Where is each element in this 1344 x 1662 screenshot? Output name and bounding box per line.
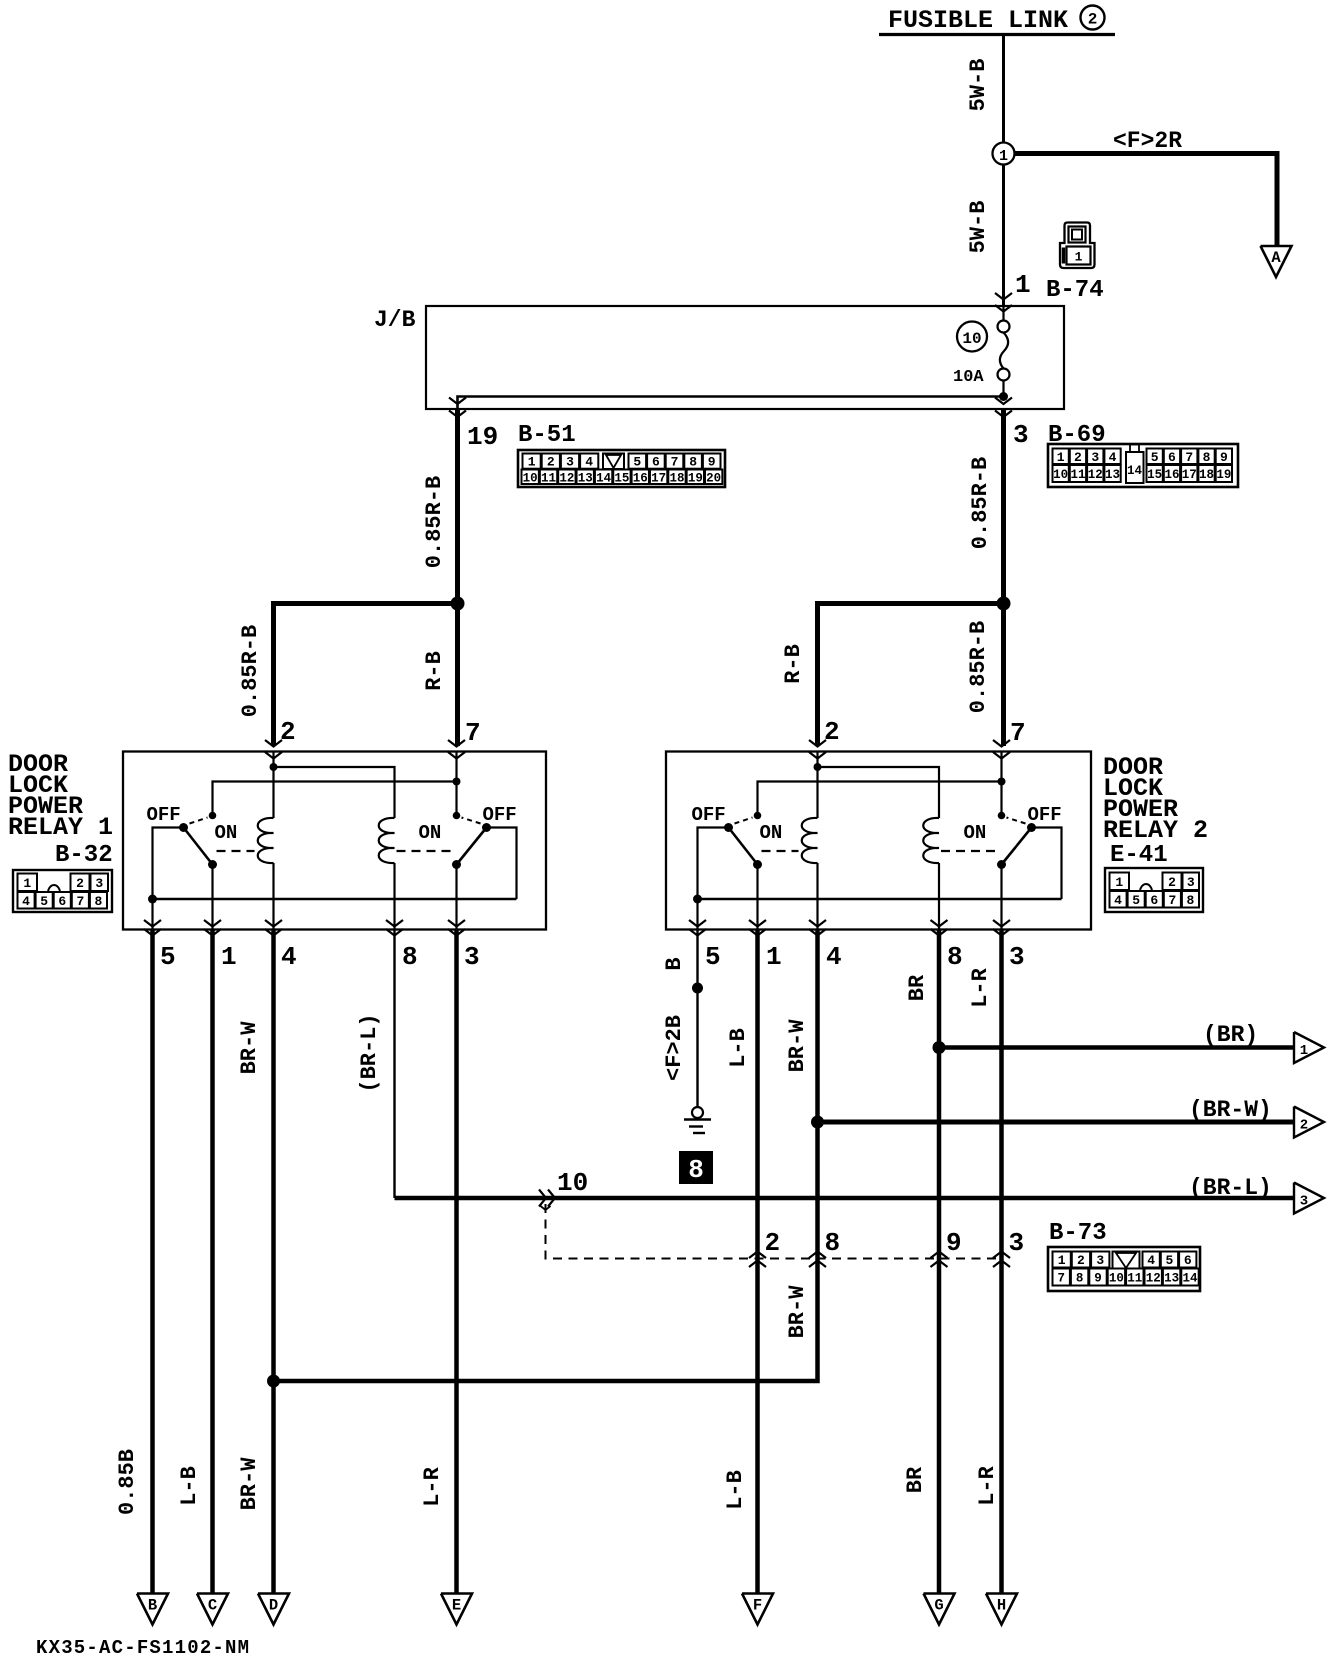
- svg-text:E: E: [452, 1597, 461, 1615]
- svg-text:7: 7: [1057, 1272, 1065, 1286]
- switch left: common lead: [698, 828, 729, 900]
- svg-text:6: 6: [652, 455, 660, 470]
- svg-text:B: B: [148, 1597, 157, 1615]
- svg-text:3: 3: [464, 942, 480, 972]
- wire (F)2R branch: [1015, 154, 1278, 246]
- wire 5W-B lower segment: [1002, 165, 1005, 306]
- node pin5 junction: [148, 895, 157, 904]
- svg-text:3: 3: [1096, 1253, 1104, 1268]
- svg-text:2: 2: [1300, 1118, 1308, 1134]
- svg-text:6: 6: [58, 894, 66, 909]
- wire (BR) output: [939, 1045, 1294, 1050]
- svg-text:13: 13: [1105, 468, 1120, 482]
- svg-text:<F>2R: <F>2R: [1113, 128, 1182, 154]
- svg-text:4: 4: [1114, 893, 1122, 908]
- svg-text:R-B: R-B: [422, 651, 447, 691]
- node pin7 junction: [998, 778, 1006, 786]
- arrow out of J/B pin 19: [449, 398, 466, 405]
- svg-text:5: 5: [1132, 893, 1140, 908]
- wire switch commons bottom: [153, 898, 517, 901]
- node fuse output junction: [999, 392, 1008, 401]
- wire pin7 internal: [455, 752, 457, 817]
- svg-text:E-41: E-41: [1110, 842, 1168, 869]
- node pin2 junction: [270, 763, 278, 771]
- svg-text:BR-W: BR-W: [237, 1021, 262, 1075]
- node BR-W junction: [267, 1375, 280, 1388]
- ground ref box 8: [680, 1152, 712, 1183]
- svg-text:15: 15: [1147, 468, 1162, 482]
- svg-text:9: 9: [1220, 450, 1228, 465]
- svg-text:(BR-L): (BR-L): [357, 1013, 382, 1092]
- arrow out of J/B pin 3: [995, 398, 1012, 405]
- svg-text:2: 2: [824, 717, 840, 747]
- svg-text:19: 19: [1216, 468, 1231, 482]
- svg-text:19: 19: [688, 471, 703, 485]
- mech link dashes left: [762, 850, 799, 852]
- wire 0.85R-B left from J/B pin 19: [455, 409, 460, 604]
- svg-text:4: 4: [1109, 450, 1117, 465]
- svg-text:11: 11: [541, 471, 556, 485]
- svg-text:8: 8: [95, 894, 103, 909]
- svg-text:ON: ON: [760, 822, 783, 844]
- svg-text:BR-W: BR-W: [785, 1019, 810, 1073]
- wire 5W-B from fusible link: [1002, 36, 1005, 143]
- svg-text:7: 7: [76, 894, 84, 909]
- svg-text:9: 9: [708, 455, 716, 470]
- node switch left pivot: [724, 823, 733, 832]
- svg-text:R-B: R-B: [781, 644, 806, 684]
- svg-text:D: D: [269, 1597, 278, 1615]
- svg-text:9: 9: [1094, 1272, 1102, 1286]
- wire to pin 5: [151, 899, 153, 930]
- wire inside J/B to pin 19: [458, 397, 1004, 410]
- connector triangle D: [258, 1594, 289, 1625]
- svg-text:OFF: OFF: [483, 804, 517, 826]
- svg-text:4: 4: [281, 942, 297, 972]
- arrows out of relay: [689, 920, 706, 927]
- svg-text:12: 12: [1088, 468, 1103, 482]
- wire BR pin8 relay2 to G: [937, 930, 942, 1595]
- svg-text:1: 1: [528, 455, 536, 470]
- wire to pin 5: [696, 899, 698, 930]
- mech link dashes right: [941, 850, 996, 852]
- wire B pin5 relay2 to ground: [696, 930, 698, 1108]
- svg-text:L-R: L-R: [975, 1465, 1000, 1505]
- node junction circle 1: [993, 143, 1015, 165]
- svg-text:BR-W: BR-W: [785, 1285, 810, 1339]
- svg-text:BR: BR: [905, 974, 930, 1001]
- svg-text:L-B: L-B: [723, 1470, 748, 1510]
- svg-text:3: 3: [1013, 420, 1029, 450]
- svg-text:L-B: L-B: [726, 1028, 751, 1068]
- svg-text:17: 17: [651, 471, 666, 485]
- svg-text:G: G: [934, 1597, 943, 1615]
- svg-text:5: 5: [1166, 1253, 1174, 1268]
- wire to pin 8: [938, 863, 940, 930]
- arrow pin10 into B-73: [539, 1190, 546, 1207]
- svg-text:RELAY 2: RELAY 2: [1103, 816, 1208, 845]
- node split right: [997, 597, 1011, 611]
- connector icon B-74: [1060, 223, 1095, 269]
- switch right throw dashes: [462, 818, 481, 824]
- svg-text:7: 7: [1168, 893, 1176, 908]
- connector triangle G: [924, 1594, 955, 1625]
- switch left throw dashes: [735, 818, 753, 824]
- connector triangle H: [986, 1594, 1017, 1625]
- svg-text:1: 1: [1057, 450, 1065, 465]
- node pin7 junction: [453, 778, 461, 786]
- node switch right pivot: [482, 823, 491, 832]
- svg-text:OFF: OFF: [1028, 804, 1062, 826]
- junction block J/B: [426, 306, 1064, 409]
- wire BR-W pin4 relay1: [271, 930, 276, 1595]
- arrows out of relay: [144, 920, 161, 927]
- arrows into B-73: pins 2 8 9 3: [749, 1252, 766, 1259]
- svg-text:8: 8: [825, 1228, 841, 1258]
- connector triangle A: [1261, 246, 1292, 277]
- svg-text:8: 8: [1187, 893, 1195, 908]
- svg-text:2: 2: [765, 1228, 781, 1258]
- connector triangle E: [441, 1594, 472, 1625]
- switch left: common lead: [153, 828, 184, 900]
- node BR-W branch: [811, 1116, 824, 1129]
- svg-text:3: 3: [566, 455, 574, 470]
- svg-text:5: 5: [705, 942, 721, 972]
- wire pin2 to right coil: [818, 767, 940, 818]
- svg-text:<F>2B: <F>2B: [662, 1015, 687, 1081]
- node ON contact right: [453, 812, 461, 820]
- svg-text:5W-B: 5W-B: [966, 201, 991, 254]
- svg-text:J/B: J/B: [374, 307, 416, 333]
- wire BR-W pin4 relay2: [274, 930, 818, 1382]
- wire to relay2 pin7: [1001, 604, 1006, 747]
- wire branch to relay2 pin2: [818, 604, 1004, 747]
- svg-text:B-51: B-51: [518, 422, 576, 449]
- svg-text:2: 2: [1088, 11, 1098, 29]
- svg-text:12: 12: [559, 471, 574, 485]
- svg-text:5: 5: [160, 942, 176, 972]
- svg-text:C: C: [208, 1597, 217, 1615]
- svg-text:2: 2: [1168, 875, 1176, 890]
- mech link dashes left: [217, 850, 255, 852]
- wire L-B pin1 relay1 to C: [210, 930, 215, 1595]
- wire branch to relay1 pin2: [274, 604, 458, 747]
- svg-text:6: 6: [1150, 893, 1158, 908]
- switch left armature: [184, 828, 213, 865]
- switch left armature: [729, 828, 758, 865]
- svg-text:ON: ON: [964, 822, 987, 844]
- wire to pin 1: [756, 865, 758, 930]
- svg-text:2: 2: [76, 876, 84, 891]
- wire pin2 to right coil: [274, 767, 395, 818]
- wire 0.85B pin5 relay1 to B: [150, 930, 155, 1595]
- svg-text:5: 5: [1151, 450, 1159, 465]
- wire dashed branch from pin10: [541, 1206, 551, 1210]
- svg-text:7: 7: [465, 718, 481, 748]
- svg-text:ON: ON: [419, 822, 442, 844]
- svg-text:1: 1: [999, 148, 1008, 165]
- svg-text:B-32: B-32: [55, 842, 113, 869]
- wire L-R pin3 relay1 to E: [454, 930, 459, 1595]
- svg-text:19: 19: [467, 422, 498, 452]
- node switch left pivot: [179, 823, 188, 832]
- wire to pin 4: [816, 863, 818, 930]
- svg-text:10: 10: [962, 330, 981, 348]
- svg-text:3: 3: [95, 876, 103, 891]
- svg-text:4: 4: [585, 455, 593, 470]
- svg-text:15: 15: [614, 471, 629, 485]
- svg-text:KX35-AC-FS1102-NM: KX35-AC-FS1102-NM: [36, 1637, 250, 1659]
- relay box: [666, 752, 1091, 930]
- node ON contact right: [998, 812, 1006, 820]
- svg-text:10: 10: [1053, 468, 1068, 482]
- wire pin7 to left ON contact: [758, 782, 1002, 814]
- svg-text:7: 7: [1010, 718, 1026, 748]
- svg-text:12: 12: [1146, 1272, 1161, 1286]
- svg-text:L-R: L-R: [420, 1466, 445, 1506]
- svg-text:14: 14: [1127, 464, 1143, 478]
- ground symbol: [692, 1107, 703, 1118]
- arrow into J/B: [995, 293, 1012, 300]
- connector E-41 pin grid: [1105, 868, 1203, 912]
- svg-text:B-73: B-73: [1049, 1220, 1107, 1247]
- wire to pin 3: [455, 865, 457, 930]
- svg-text:1: 1: [766, 942, 782, 972]
- svg-text:5: 5: [40, 894, 48, 909]
- svg-text:L-B: L-B: [177, 1466, 202, 1506]
- node ON contact left: [754, 812, 762, 820]
- relay coil left: [802, 818, 818, 863]
- svg-text:OFF: OFF: [147, 804, 181, 826]
- svg-text:FUSIBLE LINK: FUSIBLE LINK: [888, 6, 1068, 35]
- switch right armature: [1002, 828, 1032, 865]
- svg-text:3: 3: [1091, 450, 1099, 465]
- svg-text:2: 2: [547, 455, 555, 470]
- connector triangle F: [742, 1594, 773, 1625]
- svg-text:A: A: [1271, 249, 1281, 267]
- arrows into relay1: [265, 740, 282, 747]
- connector triangle C: [197, 1594, 228, 1625]
- fuse 10A with circled 10: [1002, 306, 1004, 320]
- svg-text:4: 4: [22, 894, 30, 909]
- svg-text:14: 14: [1182, 1272, 1198, 1286]
- node switch right pivot: [1027, 823, 1036, 832]
- svg-text:ON: ON: [215, 822, 238, 844]
- svg-text:8: 8: [947, 942, 963, 972]
- svg-text:8: 8: [688, 1155, 704, 1185]
- svg-text:RELAY 1: RELAY 1: [8, 813, 113, 842]
- connector triangle 3: [1294, 1183, 1324, 1214]
- svg-text:1: 1: [1015, 270, 1031, 300]
- svg-text:1: 1: [1058, 1253, 1066, 1268]
- svg-text:4: 4: [826, 942, 842, 972]
- svg-text:1: 1: [1300, 1043, 1308, 1059]
- svg-text:(BR-W): (BR-W): [1189, 1097, 1272, 1123]
- svg-text:13: 13: [578, 471, 593, 485]
- svg-text:(BR): (BR): [1203, 1022, 1258, 1048]
- svg-text:3: 3: [1009, 1228, 1025, 1258]
- svg-text:11: 11: [1070, 468, 1085, 482]
- svg-text:6: 6: [1184, 1253, 1192, 1268]
- wire to pin 8: [393, 863, 395, 930]
- node BR branch: [933, 1041, 946, 1054]
- svg-text:2: 2: [1077, 1253, 1085, 1268]
- svg-text:10: 10: [1109, 1272, 1124, 1286]
- svg-text:5: 5: [633, 455, 641, 470]
- svg-text:2: 2: [280, 717, 296, 747]
- wire to relay1 pin7: [455, 604, 460, 747]
- svg-text:BR: BR: [903, 1466, 928, 1493]
- svg-text:11: 11: [1127, 1272, 1142, 1286]
- svg-text:F: F: [753, 1597, 762, 1615]
- switch left throw dashes: [190, 818, 208, 824]
- svg-text:0.85R-B: 0.85R-B: [966, 621, 991, 713]
- svg-text:H: H: [997, 1597, 1006, 1615]
- svg-text:17: 17: [1182, 468, 1197, 482]
- relay coil right: [923, 818, 939, 863]
- svg-text:B-74: B-74: [1046, 277, 1104, 304]
- svg-text:8: 8: [1203, 450, 1211, 465]
- svg-text:18: 18: [669, 471, 684, 485]
- svg-text:18: 18: [1199, 468, 1214, 482]
- wire 0.85R-B right from J/B pin 3: [1001, 409, 1006, 604]
- wire to pin 1: [211, 865, 213, 930]
- node pin2 junction: [814, 763, 822, 771]
- wire pin7 internal: [1000, 752, 1002, 817]
- mech link dashes right: [397, 850, 451, 852]
- wire to pin 4: [272, 863, 274, 930]
- svg-text:9: 9: [946, 1228, 962, 1258]
- relay coil right: [379, 818, 395, 863]
- svg-text:10A: 10A: [953, 368, 984, 387]
- wire switch commons bottom: [698, 898, 1062, 901]
- switch right: common lead: [487, 828, 517, 900]
- svg-text:8: 8: [402, 942, 418, 972]
- svg-text:1: 1: [1115, 875, 1123, 890]
- node splice: [692, 983, 703, 994]
- svg-text:16: 16: [1164, 468, 1179, 482]
- svg-text:1: 1: [1075, 250, 1083, 265]
- node pin5 junction: [693, 895, 702, 904]
- svg-text:BR-W: BR-W: [237, 1457, 262, 1511]
- switch right throw dashes: [1007, 818, 1026, 824]
- wire (BR-L) pin8 relay1: [393, 930, 395, 1199]
- svg-text:(BR-L): (BR-L): [1189, 1175, 1272, 1201]
- node split left: [451, 597, 465, 611]
- svg-text:7: 7: [671, 455, 679, 470]
- svg-text:20: 20: [706, 471, 721, 485]
- connector triangle B: [137, 1594, 168, 1625]
- wire pin2 internal to left coil: [272, 752, 274, 819]
- wire pin7 to left ON contact: [213, 782, 457, 814]
- svg-text:3: 3: [1300, 1194, 1308, 1210]
- connector triangle 1: [1294, 1032, 1324, 1063]
- svg-text:5W-B: 5W-B: [966, 59, 991, 112]
- wire pin2 internal to left coil: [816, 752, 818, 819]
- svg-text:16: 16: [633, 471, 648, 485]
- node ON contact left: [209, 812, 217, 820]
- svg-text:14: 14: [596, 471, 612, 485]
- relay coil left: [258, 818, 274, 863]
- svg-text:3: 3: [1009, 942, 1025, 972]
- svg-text:3: 3: [1187, 875, 1195, 890]
- svg-text:1: 1: [23, 876, 31, 891]
- svg-text:B: B: [662, 957, 687, 970]
- svg-text:0.85R-B: 0.85R-B: [422, 476, 447, 568]
- svg-text:OFF: OFF: [692, 804, 726, 826]
- svg-text:0.85B: 0.85B: [115, 1449, 140, 1515]
- svg-text:0.85R-B: 0.85R-B: [968, 457, 993, 549]
- svg-text:8: 8: [1076, 1272, 1084, 1286]
- wire L-B pin1 relay2 to F: [755, 930, 760, 1595]
- svg-text:L-R: L-R: [968, 967, 993, 1007]
- connector B-32 pin grid: [13, 870, 112, 912]
- svg-text:8: 8: [689, 455, 697, 470]
- svg-text:10: 10: [557, 1168, 588, 1198]
- arrows into relay2: [809, 740, 826, 747]
- svg-text:7: 7: [1185, 450, 1193, 465]
- wire to pin 3: [1000, 865, 1002, 930]
- svg-text:0.85R-B: 0.85R-B: [238, 625, 263, 717]
- svg-text:2: 2: [1074, 450, 1082, 465]
- B-69 pin 14 tall cell: [1126, 452, 1144, 483]
- wire L-R pin3 relay2 to H: [999, 930, 1004, 1595]
- switch right: common lead: [1032, 828, 1062, 900]
- relay box: [123, 752, 546, 930]
- svg-text:10: 10: [523, 471, 538, 485]
- svg-text:13: 13: [1164, 1272, 1179, 1286]
- switch right armature: [457, 828, 487, 865]
- svg-text:1: 1: [221, 942, 237, 972]
- svg-text:4: 4: [1147, 1253, 1155, 1268]
- wire (BR-L) output: [395, 1196, 1295, 1201]
- connector triangle 2: [1294, 1107, 1324, 1138]
- svg-text:6: 6: [1168, 450, 1176, 465]
- wire (BR-W) output: [818, 1120, 1295, 1125]
